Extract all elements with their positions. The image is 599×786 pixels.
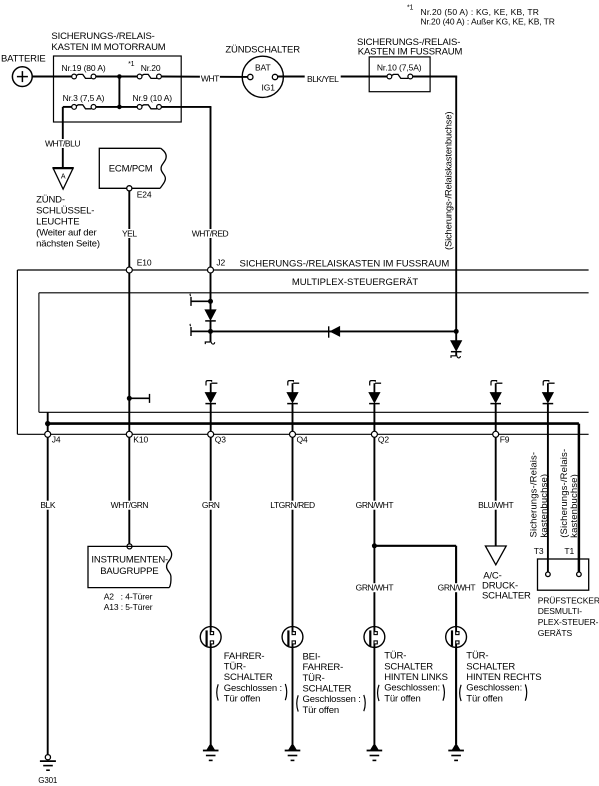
wire diode Q2 to connector [373, 404, 375, 432]
svg-text:Nr.19 (80 A): Nr.19 (80 A) [62, 63, 106, 73]
svg-text:ECM/PCM: ECM/PCM [109, 164, 153, 175]
svg-text:WHT: WHT [201, 73, 219, 83]
wire T3 down to test connector [547, 404, 549, 572]
wire node vertical [118, 77, 120, 107]
socket above diode Q2 [375, 382, 381, 384]
svg-text:Tür offen: Tür offen [224, 693, 260, 704]
svg-text:Nr.10 (7,5A): Nr.10 (7,5A) [377, 63, 422, 73]
svg-text:KASTEN IM FUSSRAUM: KASTEN IM FUSSRAUM [358, 47, 463, 58]
pin E10 [126, 267, 132, 273]
fuse/relay box footwell (top) [369, 57, 430, 92]
svg-text:Tür offen: Tür offen [384, 693, 421, 704]
socket above diode T3 [549, 382, 555, 384]
diode D2 pointing left [328, 326, 330, 337]
battery [12, 67, 32, 87]
fuse Nr.9 (10 A) [142, 105, 158, 109]
pin J2 [208, 267, 214, 273]
wire stub left upper [191, 300, 211, 302]
fuse Nr.3 (7,5 A) [76, 105, 92, 109]
svg-text:PRÜFSTECKER: PRÜFSTECKER [538, 595, 599, 605]
svg-text:IG1: IG1 [261, 83, 275, 93]
wire fuse20 to ignition switch WHT [162, 76, 248, 78]
pin K10 [126, 431, 132, 437]
diode Q3 column [210, 383, 212, 393]
svg-text:YEL: YEL [122, 228, 137, 238]
svg-text:SCHALTER: SCHALTER [303, 684, 352, 695]
ground rear left door switch [370, 744, 378, 751]
svg-text:nächsten Seite): nächsten Seite) [36, 238, 100, 249]
node K10 junction [127, 396, 132, 401]
svg-text:SCHALTER: SCHALTER [224, 672, 273, 683]
switch rear right door [446, 627, 467, 648]
ground G301 [45, 755, 50, 760]
test connector box [538, 559, 589, 590]
svg-text:WHT/RED: WHT/RED [192, 228, 229, 238]
svg-text:Nr.20: Nr.20 [141, 63, 161, 73]
socket below diode D3 [455, 352, 457, 356]
svg-text:(Sicherungs-/Relais-: (Sicherungs-/Relais- [559, 449, 570, 538]
svg-text:Tür offen: Tür offen [303, 705, 340, 716]
svg-text:J4: J4 [52, 435, 61, 445]
svg-text:T3: T3 [534, 546, 544, 556]
pin T3 socket [546, 572, 551, 577]
ground driver door switch [207, 744, 215, 751]
svg-text:WHT/BLU: WHT/BLU [45, 138, 80, 148]
svg-text:T1: T1 [564, 546, 574, 556]
svg-text:(Sicherungs-/Relaiskastenbuchs: (Sicherungs-/Relaiskastenbuchse) [444, 112, 455, 250]
wire WHT/GRN to gauge assembly [128, 437, 130, 544]
svg-text:FAHRER-: FAHRER- [224, 651, 265, 662]
fuse/relay box footwell (main) top edge [17, 269, 588, 271]
wire fuse3 to node [96, 106, 138, 108]
svg-text:E10: E10 [137, 258, 152, 268]
svg-text:WHT/GRN: WHT/GRN [111, 500, 149, 510]
svg-text:kastenbuchse): kastenbuchse) [539, 474, 550, 538]
svg-text:PLEX-STEUER-: PLEX-STEUER- [538, 617, 599, 627]
switch driver door [200, 627, 221, 648]
wire YEL E24 to E10 [128, 191, 130, 267]
wire stub right [129, 397, 149, 399]
wire WHT/BLU down [62, 107, 64, 168]
diode F9 column [495, 383, 497, 393]
svg-text:HINTEN LINKS: HINTEN LINKS [384, 672, 448, 683]
bus wire to T1 [48, 422, 579, 425]
fuse Nr.20 [142, 74, 158, 78]
node right junction [454, 329, 459, 334]
svg-text:MULTIPLEX-STEUERGERÄT: MULTIPLEX-STEUERGERÄT [292, 277, 419, 288]
svg-text:G301: G301 [38, 776, 58, 785]
svg-text:Q3: Q3 [215, 435, 227, 445]
socket right of K10 stub [149, 394, 151, 403]
svg-text:BLK: BLK [40, 500, 55, 510]
svg-text:Sicherungs-/Relais-: Sicherungs-/Relais- [528, 452, 539, 538]
gauge assembly box [88, 546, 169, 587]
wire battery to fuse box [32, 76, 72, 78]
diode D3 [451, 341, 462, 351]
svg-text:DESMULTI-: DESMULTI- [538, 606, 583, 616]
node J2 upper junction [208, 299, 213, 304]
svg-text:Q2: Q2 [378, 435, 390, 445]
svg-text:SICHERUNGS-/RELAISKASTEN IM FU: SICHERUNGS-/RELAISKASTEN IM FUSSRAUM [240, 259, 450, 270]
svg-text:*1: *1 [128, 61, 135, 68]
svg-text:GRN: GRN [202, 500, 220, 510]
pin Q3 [208, 431, 214, 437]
svg-text:BAUGRUPPE: BAUGRUPPE [100, 566, 158, 577]
wire diode Q4 to connector [292, 404, 294, 432]
gauge assembly pin [127, 544, 132, 549]
svg-text:ZÜND-: ZÜND- [36, 194, 65, 205]
svg-text:Geschlossen:: Geschlossen: [384, 683, 440, 694]
svg-text:KASTEN IM MOTORRAUM: KASTEN IM MOTORRAUM [51, 42, 165, 53]
wire WHT/RED down to J2 [210, 107, 212, 267]
wire GRN/WHT to rear door switches [373, 437, 375, 744]
wire diode Q3 to connector [210, 404, 212, 432]
ground rear right door switch [452, 744, 460, 751]
wire J4 stub from multiplex [47, 412, 49, 431]
switch passenger door [282, 627, 303, 648]
wire IG1 to fuse box BLK/YEL [278, 76, 388, 78]
wire stub left lower [191, 330, 211, 332]
fuse Nr.19 (80 A) [76, 74, 92, 78]
svg-text:GRN/WHT: GRN/WHT [356, 583, 394, 593]
fuse Nr.10 (7,5 A) [392, 74, 409, 78]
svg-text:FAHRER-: FAHRER- [303, 662, 344, 673]
svg-text:BLU/WHT: BLU/WHT [478, 500, 513, 510]
svg-text:kastenbuchse): kastenbuchse) [569, 474, 580, 538]
socket above diode F9 [496, 382, 502, 384]
svg-text:TÜR-: TÜR- [384, 651, 406, 662]
wire fuse9 to WHT/RED corner [162, 106, 212, 108]
connector arrow A ignition key light [53, 168, 73, 189]
svg-text:BLK/YEL: BLK/YEL [307, 74, 339, 84]
fuse/relay box footwell left edge [16, 270, 18, 434]
ECM/PCM [99, 148, 160, 188]
svg-text:GRN/WHT: GRN/WHT [438, 583, 476, 593]
pin Q2 [371, 431, 377, 437]
pin Q4 [290, 431, 296, 437]
diode Q2 column [373, 383, 375, 393]
svg-text:SCHALTER: SCHALTER [482, 591, 531, 602]
pin J4 [45, 431, 51, 437]
svg-text:INSTRUMENTEN-: INSTRUMENTEN- [91, 555, 168, 566]
svg-text:LTGRN/RED: LTGRN/RED [270, 500, 315, 510]
svg-text:TÜR-: TÜR- [224, 662, 246, 673]
svg-text:GRN/WHT: GRN/WHT [356, 500, 394, 510]
svg-text:Nr.3 (7,5 A): Nr.3 (7,5 A) [63, 93, 105, 103]
svg-text:SCHLÜSSEL-: SCHLÜSSEL- [36, 205, 94, 216]
svg-text:J2: J2 [216, 258, 225, 268]
wire BLK to ground [47, 437, 49, 754]
socket below J2 junction [210, 331, 212, 341]
wire diode F9 to connector [495, 404, 497, 432]
svg-text:A13 : 5-Türer: A13 : 5-Türer [104, 602, 153, 612]
svg-text:A: A [61, 173, 66, 180]
wire fuse19 to node [96, 76, 138, 78]
wire LTGRN/RED to passenger door switch [292, 437, 294, 744]
svg-text:HINTEN RECHTS: HINTEN RECHTS [466, 672, 541, 683]
pin E24 [127, 186, 132, 191]
svg-text:Geschlossen :: Geschlossen : [303, 694, 361, 705]
node GRN/WHT branch [372, 543, 377, 548]
wire fuse10 to corner and down [413, 76, 458, 78]
svg-text:LEUCHTE: LEUCHTE [36, 216, 79, 227]
svg-text:BEI-: BEI- [303, 651, 321, 662]
svg-text:Geschlossen:: Geschlossen: [466, 683, 522, 694]
diode T3 column [547, 383, 549, 393]
switch rear left door [364, 627, 385, 648]
socket above diode Q4 [293, 382, 299, 384]
svg-text:SCHALTER: SCHALTER [466, 661, 515, 672]
pin T1 socket [577, 572, 582, 577]
wire branch to right rear switch [374, 545, 456, 547]
svg-text:A2 : 4-Türer: A2 : 4-Türer [104, 591, 153, 601]
svg-text:Q4: Q4 [297, 435, 309, 445]
fuse/relay box footwell bottom edge [17, 433, 588, 435]
ignition switch ZUENDSCHALTER [242, 56, 283, 97]
wire J2 down [210, 273, 212, 301]
svg-text:TÜR-: TÜR- [466, 651, 488, 662]
node fuse bus [117, 74, 122, 79]
svg-text:TÜR-: TÜR- [303, 673, 325, 684]
connector arrow A/C pressure switch [485, 546, 506, 565]
svg-text:BAT: BAT [255, 62, 271, 72]
node J2 lower junction [208, 329, 213, 334]
wire J2 junction to right node [211, 330, 457, 332]
multiplex control unit box bottom edge [39, 411, 589, 413]
socket upper-left [190, 297, 192, 306]
svg-text:Geschlossen :: Geschlossen : [224, 683, 282, 694]
diode D1 [205, 310, 216, 320]
wire E10 to K10 [128, 273, 130, 431]
svg-text:K10: K10 [133, 435, 148, 445]
svg-text:SCHALTER: SCHALTER [384, 661, 433, 672]
svg-text:SICHERUNGS-/RELAIS-: SICHERUNGS-/RELAIS- [51, 31, 154, 42]
svg-text:F9: F9 [500, 435, 510, 445]
svg-text:ZÜNDSCHALTER: ZÜNDSCHALTER [225, 45, 300, 56]
fuse/relay box engine compartment [54, 56, 182, 122]
svg-text:*1: *1 [407, 5, 414, 12]
wire GRN to driver door switch [210, 437, 212, 744]
socket above diode Q3 [211, 382, 217, 384]
svg-text:(Weiter auf der: (Weiter auf der [36, 227, 96, 238]
svg-text:E24: E24 [137, 190, 152, 200]
wire row2 left stub [63, 106, 72, 108]
ground passenger door switch [289, 744, 297, 751]
diode Q4 column [292, 383, 294, 393]
wire BLU/WHT to A/C switch [495, 437, 497, 546]
multiplex control unit box top edge [39, 292, 589, 294]
svg-text:Nr.20 (50 A) : KG, KE, KB, TR: Nr.20 (50 A) : KG, KE, KB, TR [421, 7, 540, 17]
node bus junction [45, 421, 50, 426]
socket lower-left [190, 327, 192, 336]
multiplex control unit box left edge [38, 293, 40, 413]
svg-text:GERÄTS: GERÄTS [538, 628, 573, 638]
svg-text:Nr.20 (40 A) : Außer KG, KE, K: Nr.20 (40 A) : Außer KG, KE, KB, TR [421, 17, 555, 27]
svg-text:Nr.9 (10 A): Nr.9 (10 A) [133, 93, 173, 103]
pin F9 [493, 431, 499, 437]
svg-text:BATTERIE: BATTERIE [1, 53, 46, 64]
svg-text:Tür offen: Tür offen [466, 693, 503, 704]
